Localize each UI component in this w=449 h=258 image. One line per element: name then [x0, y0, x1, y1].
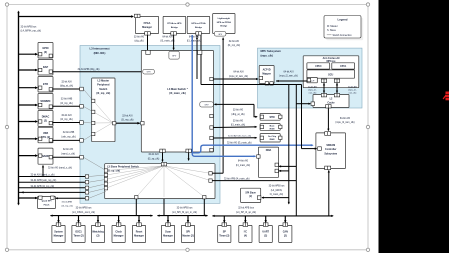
- svg-text:UART: UART: [262, 231, 269, 234]
- svg-text:32-bit APB (l4_mp_clk): 32-bit APB (l4_mp_clk): [31, 185, 55, 188]
- svg-text:SPI: SPI: [186, 231, 190, 234]
- svg-text:(l3_mp_clk): (l3_mp_clk): [121, 119, 134, 122]
- svg-text:Manager: Manager: [54, 235, 64, 238]
- svg-text:(mpu_l2_ram_clk): (mpu_l2_ram_clk): [335, 121, 354, 124]
- svg-text:(2): (2): [264, 235, 267, 238]
- svg-text:Switch Connection: Switch Connection: [333, 34, 353, 37]
- svg-text:HPS-to-FPGA: HPS-to-FPGA: [217, 21, 232, 24]
- svg-text:Scan: Scan: [165, 231, 171, 234]
- svg-text:(2): (2): [249, 196, 252, 198]
- svg-text:32-bit AXI: 32-bit AXI: [122, 114, 133, 117]
- svg-text:(mpu_clk): (mpu_clk): [261, 54, 273, 58]
- svg-text:Reset: Reset: [136, 231, 143, 234]
- svg-text:(L4_OSC1_osc1_clk): (L4_OSC1_osc1_clk): [72, 211, 95, 214]
- svg-text:(mpu_l2_ram_clk): (mpu_l2_ram_clk): [279, 75, 298, 78]
- svg-text:(L4_MAIN,: (L4_MAIN,: [271, 189, 283, 192]
- svg-text:64-bit AXI: 64-bit AXI: [308, 86, 317, 89]
- svg-text:SCU: SCU: [328, 73, 333, 76]
- svg-text:L3 Master: L3 Master: [97, 80, 109, 83]
- svg-text:(l4_mp_clk): (l4_mp_clk): [60, 102, 73, 105]
- svg-text:64-bit AXI: 64-bit AXI: [284, 70, 294, 73]
- svg-text:Bridge: Bridge: [220, 26, 228, 28]
- svg-text:(l4_mp_clk): (l4_mp_clk): [60, 118, 73, 121]
- svg-text:USB: USB: [43, 132, 48, 135]
- svg-text:GPIO: GPIO: [42, 47, 48, 50]
- svg-text:(l4_main_clk): (l4_main_clk): [236, 164, 250, 167]
- svg-text:32-bit AXI: 32-bit AXI: [148, 153, 159, 156]
- svg-text:(NIC-301): (NIC-301): [94, 51, 106, 55]
- svg-text:Clock: Clock: [115, 231, 122, 234]
- svg-text:32-bit APB bus: 32-bit APB bus: [238, 207, 255, 210]
- svg-text:Controller: Controller: [325, 148, 336, 151]
- svg-text:SD/MMC: SD/MMC: [40, 100, 50, 103]
- svg-text:32-bit AXI: 32-bit AXI: [61, 114, 72, 117]
- svg-text:(mpu_l2_ram_clk): (mpu_l2_ram_clk): [229, 75, 248, 78]
- svg-text:Subsystem: Subsystem: [324, 152, 337, 155]
- svg-text:CPU0: CPU0: [315, 66, 322, 68]
- svg-text:(L4_SP_l4_sp_clk): (L4_SP_l4_sp_clk): [236, 211, 256, 214]
- svg-text:Manager: Manager: [142, 26, 152, 29]
- svg-text:32-bit AXI: 32-bit AXI: [233, 109, 244, 112]
- svg-text:(mpu_l2_: (mpu_l2_: [308, 90, 317, 92]
- svg-text:32-bit AXI: 32-bit AXI: [63, 148, 74, 151]
- svg-text:(l3_main_clk): (l3_main_clk): [160, 40, 174, 43]
- svg-text:64-bit AXI: 64-bit AXI: [340, 117, 351, 120]
- svg-text:32-bit APB bus: 32-bit APB bus: [21, 25, 38, 28]
- svg-text:ram_clk): ram_clk): [349, 93, 357, 95]
- svg-text:64-bit AXI: 64-bit AXI: [238, 160, 249, 163]
- svg-text:Master (2): Master (2): [182, 235, 193, 238]
- svg-text:32-bit AHB: 32-bit AHB: [62, 200, 73, 203]
- svg-text:ETR: ETR: [43, 83, 48, 86]
- svg-text:Watchdog: Watchdog: [92, 231, 104, 234]
- svg-text:RAM: RAM: [270, 138, 275, 141]
- svg-text:Legend: Legend: [338, 18, 348, 22]
- svg-text:32-bit APB bus: 32-bit APB bus: [76, 207, 93, 210]
- svg-text:(2): (2): [97, 235, 100, 238]
- svg-text:CPU1: CPU1: [340, 66, 347, 68]
- svg-text:Mapper: Mapper: [262, 72, 271, 75]
- svg-text:32-bit AXI (nand_x_clk): 32-bit AXI (nand_x_clk): [31, 174, 55, 177]
- svg-text:ACP ID: ACP ID: [263, 68, 271, 71]
- svg-text:SP: SP: [223, 231, 227, 234]
- svg-text:System: System: [54, 231, 63, 234]
- svg-text:(l3_main_clk): (l3_main_clk): [231, 124, 245, 127]
- svg-text:(mpu_l2_: (mpu_l2_: [348, 90, 357, 92]
- svg-text:S: Slave: S: Slave: [327, 29, 337, 32]
- svg-text:MPU Subsystem: MPU Subsystem: [261, 49, 282, 53]
- svg-text:OSC1: OSC1: [75, 231, 82, 234]
- svg-text:(nand_x_clk): (nand_x_clk): [61, 152, 75, 155]
- svg-text:ROM: ROM: [270, 129, 275, 131]
- svg-text:32-bit AHB (usb_mp_clk): 32-bit AHB (usb_mp_clk): [31, 179, 57, 182]
- svg-text:ram_clk): ram_clk): [309, 93, 317, 95]
- svg-text:(L4_SPI_M_spi_m_clk): (L4_SPI_M_spi_m_clk): [172, 211, 197, 214]
- svg-text:64-bit AXI: 64-bit AXI: [233, 71, 244, 74]
- svg-text:32-bit AXI: 32-bit AXI: [134, 35, 145, 38]
- svg-text:Manager: Manager: [134, 235, 144, 238]
- svg-text:STM: STM: [269, 116, 274, 119]
- svg-text:(cfg_clk): (cfg_clk): [134, 40, 143, 43]
- svg-text:(l3_main_clk): (l3_main_clk): [187, 40, 201, 43]
- svg-text:Bridge: Bridge: [171, 27, 179, 29]
- svg-text:I²C: I²C: [244, 230, 247, 234]
- svg-text:64-bit AXI: 64-bit AXI: [162, 35, 173, 38]
- svg-text:32-bit AXI (nand_x_clk): 32-bit AXI (nand_x_clk): [48, 166, 72, 169]
- svg-text:(dbg_at_clk): (dbg_at_clk): [60, 85, 73, 88]
- svg-text:(l4_mp_clk): (l4_mp_clk): [62, 205, 74, 207]
- svg-text:Peripheral: Peripheral: [97, 84, 110, 87]
- svg-text:On-Chip: On-Chip: [268, 136, 277, 138]
- svg-text:(l3_main_clk): (l3_main_clk): [169, 91, 186, 95]
- svg-text:32-bit AHB (dbg_clk): 32-bit AHB (dbg_clk): [78, 68, 100, 71]
- svg-text:(usb_mp_clk): (usb_mp_clk): [61, 135, 76, 138]
- svg-text:DMA: DMA: [266, 149, 272, 152]
- svg-text:NAND: NAND: [42, 155, 49, 158]
- svg-text:32-bit AXI: 32-bit AXI: [61, 80, 72, 83]
- svg-text:(L4_MP/H_mp_clk): (L4_MP/H_mp_clk): [21, 30, 42, 33]
- svg-text:(2): (2): [44, 119, 47, 122]
- svg-text:l4_main_clk): l4_main_clk): [270, 193, 284, 196]
- svg-text:FPGA: FPGA: [144, 22, 151, 25]
- svg-text:32-bit AHB: 32-bit AHB: [63, 131, 75, 134]
- svg-text:DAP: DAP: [43, 66, 49, 69]
- svg-text:Timer (2): Timer (2): [219, 235, 229, 238]
- svg-text:Cache: Cache: [327, 102, 335, 105]
- svg-text:SDRAM: SDRAM: [326, 144, 335, 147]
- svg-text:(l4_mp_clk): (l4_mp_clk): [228, 44, 241, 47]
- svg-text:32-bit APB bus: 32-bit APB bus: [269, 185, 286, 188]
- svg-text:Boot: Boot: [270, 124, 275, 127]
- svg-text:32-bit AXI (l3_main_clk): 32-bit AXI (l3_main_clk): [228, 135, 251, 138]
- svg-text:Flash: Flash: [44, 204, 50, 206]
- svg-text:(l3_sp_clk): (l3_sp_clk): [148, 157, 160, 160]
- svg-text:32-bit AHB: 32-bit AHB: [61, 98, 73, 101]
- svg-text:32-bit APB (l4_main_clk): 32-bit APB (l4_main_clk): [224, 177, 250, 180]
- svg-text:Switch: Switch: [99, 88, 108, 91]
- svg-text:32-bit AXI: 32-bit AXI: [233, 119, 244, 122]
- svg-text:SPI Slave: SPI Slave: [245, 192, 256, 194]
- svg-text:Timer (2): Timer (2): [73, 235, 83, 238]
- svg-text:(l3_mp_clk): (l3_mp_clk): [96, 92, 110, 95]
- svg-text:DMAC: DMAC: [42, 116, 50, 119]
- svg-text:FPGA-to-HPS: FPGA-to-HPS: [167, 22, 182, 25]
- svg-text:L3 Interconnect: L3 Interconnect: [89, 47, 109, 51]
- svg-text:Lightweight: Lightweight: [218, 17, 231, 20]
- svg-text:64-bit AXI: 64-bit AXI: [189, 35, 200, 38]
- svg-text:L3 Main Switch *: L3 Main Switch *: [167, 87, 187, 91]
- svg-text:32-bit AXI: 32-bit AXI: [229, 40, 240, 43]
- svg-text:Manager: Manager: [163, 235, 173, 238]
- svg-text:M: Master: M: Master: [327, 25, 338, 28]
- svg-text:32-bit APB bus: 32-bit APB bus: [177, 207, 194, 210]
- svg-text:Quad SPI: Quad SPI: [42, 201, 52, 203]
- svg-text:(dbg_at_clk): (dbg_at_clk): [231, 113, 244, 116]
- svg-text:Bridge: Bridge: [195, 27, 203, 29]
- svg-text:(2): (2): [284, 235, 287, 238]
- svg-text:32-bit AXI (l3_main_clk): 32-bit AXI (l3_main_clk): [227, 141, 252, 144]
- svg-text:64-bit AXI: 64-bit AXI: [348, 86, 357, 89]
- svg-text:GPV: GPV: [172, 56, 177, 58]
- svg-text:(3): (3): [44, 51, 47, 54]
- svg-text:HPS-to-FPGA: HPS-to-FPGA: [191, 22, 206, 25]
- svg-text:(4): (4): [244, 235, 247, 238]
- svg-text:Manager: Manager: [114, 235, 124, 238]
- svg-text:CAN: CAN: [283, 231, 288, 234]
